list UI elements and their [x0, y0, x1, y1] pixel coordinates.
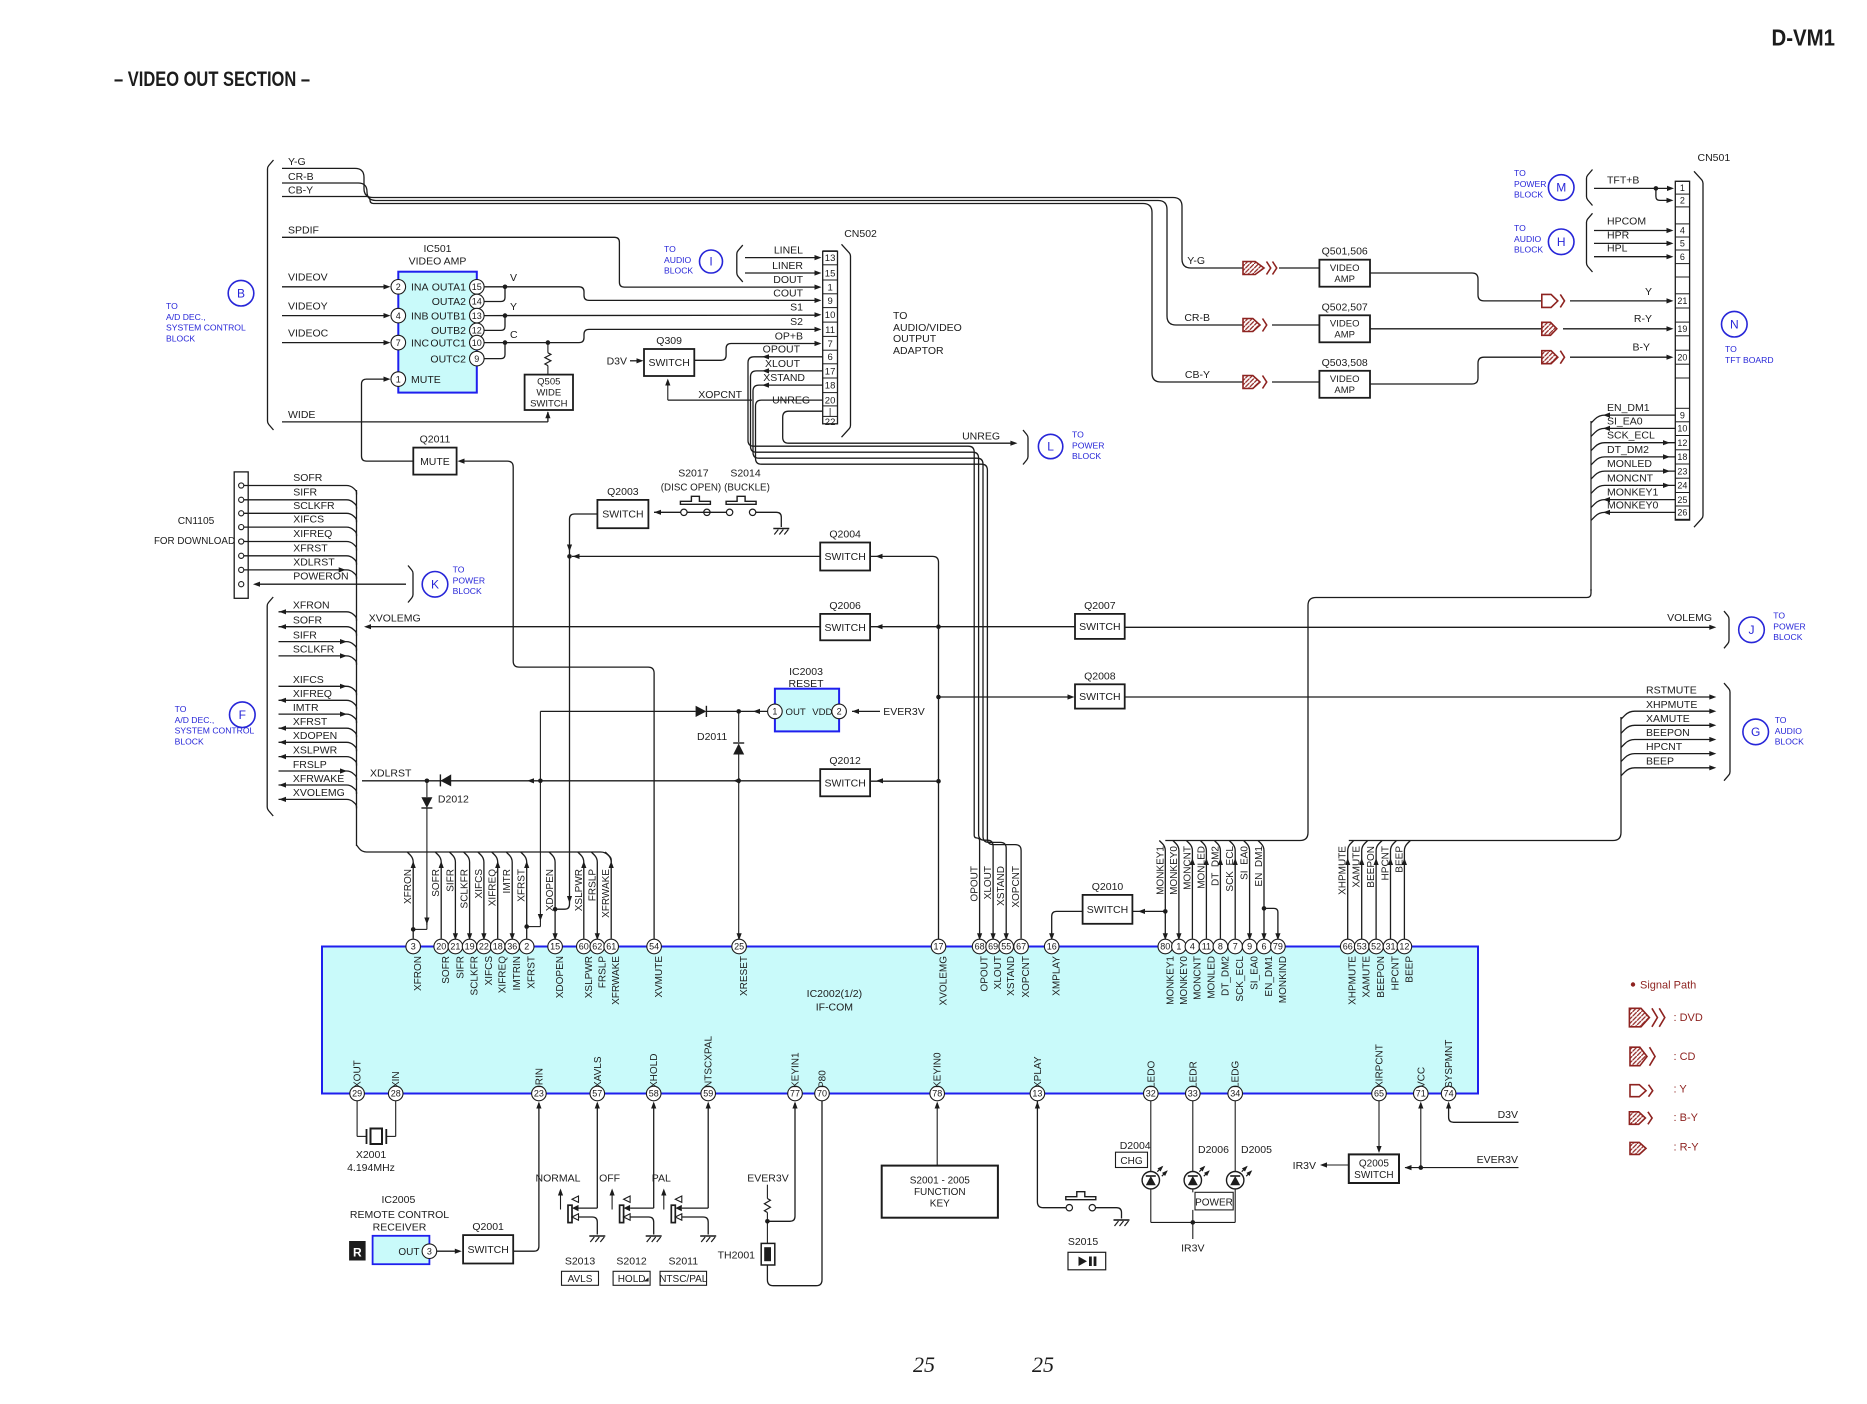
svg-text:MONCNT: MONCNT [1192, 956, 1203, 1000]
svg-text:(DISC OPEN): (DISC OPEN) [661, 483, 721, 494]
svg-text:Q501,506: Q501,506 [1322, 246, 1368, 258]
svg-text:XFRST: XFRST [517, 869, 528, 902]
svg-text:21: 21 [1677, 296, 1687, 306]
svg-text:12: 12 [1399, 942, 1409, 952]
svg-text:CR-B: CR-B [1184, 312, 1210, 324]
svg-text:XDLRST: XDLRST [370, 768, 412, 780]
svg-text:SPDIF: SPDIF [288, 225, 319, 237]
svg-text:VIDEO: VIDEO [1330, 319, 1360, 330]
svg-text:22: 22 [825, 417, 836, 428]
svg-text:XOUT: XOUT [353, 1060, 364, 1088]
svg-text:SCLKFR: SCLKFR [460, 869, 471, 908]
svg-text:EN_DM1: EN_DM1 [1254, 846, 1265, 887]
svg-text:L: L [1047, 440, 1054, 454]
svg-text:BEEPON: BEEPON [1376, 956, 1387, 998]
svg-text:D-VM1: D-VM1 [1772, 25, 1836, 51]
svg-text:Q2012: Q2012 [829, 755, 861, 767]
svg-text:D2006: D2006 [1198, 1144, 1229, 1156]
svg-text:OUTC2: OUTC2 [430, 353, 466, 365]
svg-text:XHPMUTE: XHPMUTE [1646, 699, 1697, 711]
svg-text:LEDG: LEDG [1231, 1061, 1242, 1088]
svg-text:F: F [239, 708, 246, 722]
svg-text:MONLED: MONLED [1206, 956, 1217, 999]
svg-text:KEYIN1: KEYIN1 [791, 1052, 802, 1088]
svg-text:SWITCH: SWITCH [824, 777, 865, 789]
svg-text:J: J [1749, 623, 1755, 637]
svg-text:H: H [1557, 235, 1566, 249]
svg-text:SI_EA0: SI_EA0 [1240, 846, 1251, 880]
svg-text:X2001: X2001 [356, 1149, 387, 1161]
svg-text:D2005: D2005 [1241, 1144, 1272, 1156]
svg-text:OPOUT: OPOUT [970, 866, 981, 902]
svg-text:XAMUTE: XAMUTE [1646, 713, 1690, 725]
svg-text:XLOUT: XLOUT [993, 956, 1004, 989]
svg-text:INB: INB [411, 310, 429, 322]
svg-text:31: 31 [1385, 942, 1395, 952]
svg-text:3: 3 [411, 942, 416, 952]
svg-text:XDOPEN: XDOPEN [555, 956, 566, 998]
svg-text:62: 62 [592, 942, 602, 952]
svg-text:VIDEO: VIDEO [1330, 374, 1360, 385]
svg-text:1: 1 [827, 283, 832, 294]
svg-text:MUTE: MUTE [420, 456, 450, 468]
svg-text:XRESET: XRESET [739, 956, 750, 996]
svg-text:Q505: Q505 [537, 377, 560, 388]
svg-text:– VIDEO OUT SECTION –: – VIDEO OUT SECTION – [114, 67, 310, 91]
svg-text:Y: Y [1645, 286, 1652, 298]
svg-text:: R-Y: : R-Y [1674, 1142, 1700, 1154]
svg-text:15: 15 [825, 268, 836, 279]
svg-text:BLOCK: BLOCK [1775, 737, 1804, 747]
svg-text:24: 24 [1677, 481, 1687, 491]
svg-text:53: 53 [1357, 942, 1367, 952]
svg-text:D2004: D2004 [1120, 1140, 1151, 1152]
svg-text:25: 25 [913, 1352, 935, 1377]
svg-text:EVER3V: EVER3V [747, 1173, 788, 1185]
svg-text:I: I [709, 255, 712, 269]
svg-text:TH2001: TH2001 [718, 1250, 756, 1262]
svg-text:MONKEY1: MONKEY1 [1607, 487, 1659, 499]
svg-text:4.194MHz: 4.194MHz [347, 1162, 395, 1174]
svg-text:B-Y: B-Y [1632, 342, 1650, 354]
svg-text:POWER: POWER [1195, 1198, 1233, 1209]
svg-text:20: 20 [436, 942, 446, 952]
svg-text:SWITCH: SWITCH [467, 1244, 508, 1256]
svg-text:CB-Y: CB-Y [288, 185, 313, 197]
svg-text:26: 26 [1677, 508, 1687, 518]
svg-text:KEY: KEY [930, 1199, 950, 1210]
svg-text:DOUT: DOUT [773, 274, 803, 286]
svg-text:XFRON: XFRON [403, 869, 414, 904]
svg-text:XSTAND: XSTAND [1006, 956, 1017, 996]
svg-text:FRSLP: FRSLP [597, 956, 608, 989]
svg-text:XSLPWR: XSLPWR [293, 744, 338, 756]
svg-text:XIFCS: XIFCS [474, 869, 485, 899]
svg-text:Q309: Q309 [656, 335, 682, 347]
svg-text:4: 4 [1190, 942, 1195, 952]
svg-text:MONCNT: MONCNT [1182, 846, 1193, 890]
svg-text:7: 7 [1233, 942, 1238, 952]
svg-text:NTSC/PAL: NTSC/PAL [659, 1274, 708, 1285]
svg-text:15: 15 [550, 942, 560, 952]
svg-text:TFT+B: TFT+B [1607, 174, 1639, 186]
svg-text:SYSTEM CONTROL: SYSTEM CONTROL [166, 323, 246, 333]
svg-text:74: 74 [1444, 1089, 1454, 1099]
svg-text:TO: TO [453, 565, 465, 575]
svg-text:MONKEY1: MONKEY1 [1155, 846, 1166, 895]
svg-text:MONCNT: MONCNT [1607, 472, 1654, 484]
svg-text:XIFREQ: XIFREQ [488, 869, 499, 906]
svg-text:HPCNT: HPCNT [1646, 741, 1683, 753]
svg-text:CB-Y: CB-Y [1185, 369, 1210, 381]
svg-text:XVMUTE: XVMUTE [654, 956, 665, 998]
svg-text:21: 21 [450, 942, 460, 952]
svg-text:XIRPCNT: XIRPCNT [1375, 1044, 1386, 1088]
svg-text:SWITCH: SWITCH [1079, 691, 1120, 703]
svg-text:BLOCK: BLOCK [1773, 632, 1802, 642]
svg-text:S2014: S2014 [730, 468, 761, 480]
svg-text:7: 7 [396, 338, 401, 348]
svg-text:1: 1 [1680, 183, 1685, 193]
svg-text:66: 66 [1343, 942, 1353, 952]
svg-text:18: 18 [825, 381, 836, 392]
svg-text:SIFR: SIFR [293, 629, 317, 641]
svg-text:A/D DEC.,: A/D DEC., [175, 715, 215, 725]
svg-text:RESET: RESET [788, 678, 824, 690]
svg-text:BLOCK: BLOCK [664, 266, 693, 276]
svg-text:20: 20 [825, 395, 836, 406]
svg-text:29: 29 [352, 1089, 362, 1099]
svg-text:3: 3 [427, 1246, 432, 1256]
svg-text:CHG: CHG [1120, 1156, 1142, 1167]
svg-text:OP+B: OP+B [775, 330, 803, 342]
svg-text:IC501: IC501 [423, 243, 451, 255]
svg-text:SWITCH: SWITCH [530, 399, 568, 410]
svg-text:SWITCH: SWITCH [1079, 621, 1120, 633]
svg-text:RECEIVER: RECEIVER [373, 1222, 427, 1234]
svg-text:XVOLEMG: XVOLEMG [939, 956, 950, 1006]
svg-text:17: 17 [825, 366, 836, 377]
svg-text:SOFR: SOFR [293, 472, 323, 484]
svg-text:SWITCH: SWITCH [648, 357, 689, 369]
svg-text:AMP: AMP [1334, 274, 1355, 285]
svg-text:A/D DEC.,: A/D DEC., [166, 312, 206, 322]
svg-text:XOPCNT: XOPCNT [1011, 866, 1022, 908]
svg-text:IR3V: IR3V [1293, 1160, 1316, 1172]
svg-text:S2: S2 [790, 316, 803, 328]
svg-text:V: V [510, 272, 517, 284]
svg-text:NTSCXPAL: NTSCXPAL [704, 1036, 715, 1088]
svg-text:BLOCK: BLOCK [1514, 245, 1543, 255]
svg-text:OUTPUT: OUTPUT [893, 333, 937, 345]
svg-text:VIDEO AMP: VIDEO AMP [409, 256, 467, 268]
svg-text:4: 4 [396, 311, 401, 321]
svg-text:AVLS: AVLS [568, 1274, 593, 1285]
svg-text:OPOUT: OPOUT [980, 956, 991, 992]
svg-text:SIFR: SIFR [445, 869, 456, 892]
svg-text:IC2002(1/2): IC2002(1/2) [807, 988, 862, 1000]
svg-text:BEEP: BEEP [1646, 755, 1674, 767]
svg-text:XVOLEMG: XVOLEMG [293, 787, 345, 799]
svg-text:AUDIO: AUDIO [1514, 234, 1542, 244]
svg-text:NORMAL: NORMAL [536, 1173, 581, 1185]
svg-text:HOLD: HOLD [618, 1274, 646, 1285]
svg-text:BLOCK: BLOCK [1072, 451, 1101, 461]
svg-text:6: 6 [827, 352, 832, 363]
svg-text:Q2001: Q2001 [472, 1221, 504, 1233]
svg-text:OUTC1: OUTC1 [430, 337, 466, 349]
svg-text:XSLPWR: XSLPWR [584, 956, 595, 998]
svg-text:VCC: VCC [1416, 1067, 1427, 1088]
svg-text:R: R [353, 1246, 362, 1260]
svg-text:XHPMUTE: XHPMUTE [1348, 956, 1359, 1005]
svg-text:S2017: S2017 [678, 468, 709, 480]
svg-text:TO: TO [1775, 715, 1787, 725]
svg-text:5: 5 [1680, 239, 1685, 249]
svg-text:SCK_ECL: SCK_ECL [1235, 956, 1246, 1002]
svg-text:SCLKFR: SCLKFR [293, 500, 335, 512]
svg-text:MONKEY0: MONKEY0 [1179, 956, 1190, 1005]
svg-text:2: 2 [396, 282, 401, 292]
svg-text:OUTB1: OUTB1 [431, 310, 466, 322]
svg-text:BEEP: BEEP [1394, 846, 1405, 873]
svg-text:13: 13 [1032, 1089, 1042, 1099]
svg-text:SCK_ECL: SCK_ECL [1225, 846, 1236, 892]
svg-text:XOPCNT: XOPCNT [1021, 956, 1032, 998]
svg-text:K: K [431, 578, 439, 592]
svg-text:OUTA2: OUTA2 [432, 296, 466, 308]
svg-text:XAVLS: XAVLS [593, 1056, 604, 1088]
svg-text:7: 7 [827, 339, 832, 350]
svg-text:VOLEMG: VOLEMG [1667, 612, 1712, 624]
svg-text:XMPLAY: XMPLAY [1052, 956, 1063, 996]
svg-text:SWITCH: SWITCH [1354, 1170, 1393, 1181]
svg-text:IC2005: IC2005 [381, 1194, 415, 1206]
svg-text:EVER3V: EVER3V [1477, 1154, 1518, 1166]
svg-text:32: 32 [1146, 1089, 1156, 1099]
svg-text:DT_DM2: DT_DM2 [1607, 444, 1649, 456]
svg-text:EN_DM1: EN_DM1 [1264, 956, 1275, 997]
svg-text:BLOCK: BLOCK [175, 736, 204, 746]
svg-text:1: 1 [1176, 942, 1181, 952]
svg-text:XLOUT: XLOUT [983, 866, 994, 899]
svg-text:25: 25 [734, 942, 744, 952]
svg-text:XIFCS: XIFCS [484, 956, 495, 986]
svg-text:IMTR: IMTR [293, 702, 319, 714]
svg-text:XAMUTE: XAMUTE [1352, 846, 1363, 888]
svg-text:AMP: AMP [1334, 385, 1355, 396]
svg-text:TO: TO [893, 310, 907, 322]
svg-text:OFF: OFF [599, 1173, 620, 1185]
svg-text:EVER3V: EVER3V [883, 706, 924, 718]
svg-text:BLOCK: BLOCK [453, 586, 482, 596]
svg-text:1: 1 [772, 707, 777, 717]
svg-text:N: N [1730, 317, 1739, 331]
svg-text:28: 28 [391, 1089, 401, 1099]
svg-text:XSLPWR: XSLPWR [574, 869, 585, 911]
svg-text:11: 11 [825, 325, 835, 336]
svg-text:WIDE: WIDE [536, 388, 561, 399]
svg-text:VDD: VDD [812, 707, 832, 718]
svg-text:9: 9 [1247, 942, 1252, 952]
svg-text:69: 69 [988, 942, 998, 952]
svg-text:17: 17 [933, 942, 943, 952]
svg-text:23: 23 [534, 1089, 544, 1099]
svg-text:SIFR: SIFR [455, 956, 466, 979]
svg-text:12: 12 [472, 326, 482, 336]
svg-text:XSTAND: XSTAND [763, 372, 805, 384]
svg-text:Q2010: Q2010 [1092, 881, 1124, 893]
svg-text:MONKEY1: MONKEY1 [1165, 956, 1176, 1005]
svg-text:EN_DM1: EN_DM1 [1607, 402, 1650, 414]
svg-text:59: 59 [703, 1089, 713, 1099]
svg-text:XLOUT: XLOUT [765, 358, 801, 370]
svg-text:R-Y: R-Y [1634, 313, 1652, 325]
svg-text:11: 11 [1202, 942, 1211, 952]
svg-text:XFRST: XFRST [293, 542, 328, 554]
svg-text:MONLED: MONLED [1607, 458, 1652, 470]
svg-text:10: 10 [472, 338, 482, 348]
svg-text:25: 25 [1032, 1352, 1054, 1377]
svg-text:13: 13 [825, 253, 836, 264]
svg-text:: CD: : CD [1674, 1051, 1696, 1063]
svg-text:54: 54 [649, 942, 659, 952]
svg-text:13: 13 [472, 311, 482, 321]
svg-text:S2013: S2013 [565, 1256, 596, 1268]
svg-text:TFT BOARD: TFT BOARD [1725, 355, 1774, 365]
svg-text:57: 57 [592, 1089, 602, 1099]
svg-text:14: 14 [472, 297, 482, 307]
svg-text:C: C [510, 329, 518, 341]
svg-text:DT_DM2: DT_DM2 [1220, 956, 1231, 996]
svg-text:16: 16 [1047, 942, 1057, 952]
svg-text:S1: S1 [790, 302, 803, 314]
svg-text:80: 80 [1160, 942, 1170, 952]
svg-text:S2012: S2012 [616, 1256, 647, 1268]
svg-text:UNREG: UNREG [962, 431, 1000, 443]
svg-text:68: 68 [975, 942, 985, 952]
svg-text:XIFREQ: XIFREQ [498, 956, 509, 993]
svg-text:XIFREQ: XIFREQ [293, 688, 332, 700]
svg-text:POWERON: POWERON [293, 571, 348, 583]
svg-text:HPL: HPL [1607, 243, 1628, 255]
svg-text:D2011: D2011 [697, 731, 727, 743]
svg-text:HPCNT: HPCNT [1381, 846, 1392, 880]
svg-text:XFRWAKE: XFRWAKE [293, 773, 344, 785]
svg-text:D3V: D3V [607, 356, 627, 368]
svg-text:12: 12 [1677, 438, 1687, 448]
svg-text:15: 15 [472, 282, 482, 292]
svg-text:LEDO: LEDO [1146, 1061, 1157, 1088]
svg-text:INA: INA [411, 282, 429, 294]
svg-text:XIFCS: XIFCS [293, 674, 324, 686]
svg-text:XFRON: XFRON [413, 956, 424, 991]
svg-text:VIDEOC: VIDEOC [288, 328, 329, 340]
svg-text:B: B [237, 286, 245, 300]
svg-text:VIDEOV: VIDEOV [288, 272, 328, 284]
svg-text:77: 77 [790, 1089, 800, 1099]
svg-text:18: 18 [493, 942, 503, 952]
svg-text:Q2003: Q2003 [607, 486, 639, 498]
svg-text:67: 67 [1016, 942, 1026, 952]
svg-text:70: 70 [817, 1089, 827, 1099]
svg-text:S2015: S2015 [1068, 1236, 1099, 1248]
svg-text:XFRON: XFRON [293, 600, 330, 612]
svg-text:SWITCH: SWITCH [602, 509, 643, 521]
svg-text:XHPMUTE: XHPMUTE [1338, 846, 1349, 895]
svg-text:Q503,508: Q503,508 [1322, 357, 1368, 369]
svg-text:78: 78 [932, 1089, 942, 1099]
svg-text:Y: Y [510, 301, 517, 313]
svg-text:VIDEO: VIDEO [1330, 263, 1360, 274]
svg-text:9: 9 [474, 354, 479, 364]
svg-text:SI_EA0: SI_EA0 [1607, 415, 1643, 427]
svg-text:: Y: : Y [1674, 1084, 1688, 1096]
svg-text:DT_DM2: DT_DM2 [1210, 846, 1221, 886]
svg-text:34: 34 [1230, 1089, 1240, 1099]
svg-text:55: 55 [1001, 942, 1011, 952]
svg-text:OUTA1: OUTA1 [432, 282, 466, 294]
svg-text:Y-G: Y-G [1187, 255, 1205, 267]
svg-text:9: 9 [1680, 410, 1685, 420]
svg-text:IC2003: IC2003 [789, 666, 823, 678]
svg-text:HPR: HPR [1607, 229, 1630, 241]
svg-text:LEDR: LEDR [1188, 1061, 1199, 1088]
svg-text:TO: TO [1514, 168, 1526, 178]
svg-text:Y-G: Y-G [288, 156, 306, 168]
svg-text:TO: TO [1773, 611, 1785, 621]
svg-text:MONKEY0: MONKEY0 [1607, 499, 1659, 511]
svg-text:XSTAND: XSTAND [996, 866, 1007, 906]
svg-text:71: 71 [1416, 1089, 1426, 1099]
svg-text:BLOCK: BLOCK [166, 333, 195, 343]
svg-text:19: 19 [1677, 324, 1687, 334]
svg-text:XOPCNT: XOPCNT [698, 389, 742, 401]
svg-text:G: G [1751, 725, 1760, 739]
svg-text:Q2011: Q2011 [420, 434, 451, 446]
svg-text:ADAPTOR: ADAPTOR [893, 345, 944, 357]
svg-text:XDOPEN: XDOPEN [293, 730, 337, 742]
svg-text:79: 79 [1273, 942, 1283, 952]
svg-text:XFRST: XFRST [527, 956, 538, 989]
svg-text:Q502,507: Q502,507 [1322, 301, 1368, 313]
svg-text:XFRST: XFRST [293, 716, 328, 728]
svg-text:XAMUTE: XAMUTE [1362, 956, 1373, 998]
svg-text:(BUCKLE): (BUCKLE) [724, 483, 770, 494]
svg-text:XDOPEN: XDOPEN [545, 869, 556, 911]
svg-text:INC: INC [411, 337, 430, 349]
svg-text:AUDIO: AUDIO [1775, 726, 1803, 736]
svg-text:MONLED: MONLED [1196, 846, 1207, 889]
svg-text:REMOTE CONTROL: REMOTE CONTROL [350, 1209, 449, 1221]
svg-text:XIN: XIN [391, 1071, 402, 1088]
svg-text:CN1105: CN1105 [178, 516, 215, 527]
svg-text:XDLRST: XDLRST [293, 556, 335, 568]
svg-text:Q2008: Q2008 [1084, 670, 1116, 682]
svg-text:POWER: POWER [1514, 179, 1546, 189]
svg-text:1: 1 [396, 374, 401, 384]
svg-text:OPOUT: OPOUT [763, 344, 801, 356]
svg-text:TO: TO [1514, 223, 1526, 233]
svg-text:20: 20 [1677, 352, 1687, 362]
svg-text:22: 22 [479, 942, 489, 952]
svg-text:6: 6 [1261, 942, 1266, 952]
svg-text:Q2006: Q2006 [829, 600, 861, 612]
svg-text:TO: TO [664, 244, 676, 254]
svg-text:XVOLEMG: XVOLEMG [369, 613, 421, 625]
svg-text:CN502: CN502 [844, 228, 877, 240]
svg-text:2: 2 [837, 707, 842, 717]
